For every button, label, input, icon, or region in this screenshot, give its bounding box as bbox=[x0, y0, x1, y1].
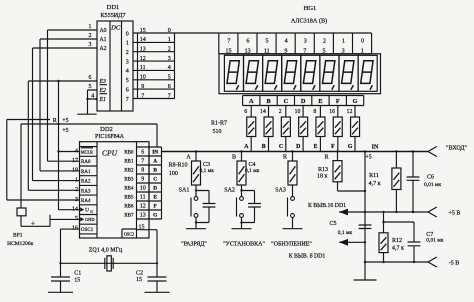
svg-text:12: 12 bbox=[140, 56, 146, 62]
svg-text:11: 11 bbox=[264, 48, 270, 54]
svg-text:18 к: 18 к bbox=[317, 174, 328, 180]
svg-text:+5: +5 bbox=[62, 128, 68, 134]
svg-text:R8-R10: R8-R10 bbox=[168, 163, 187, 169]
svg-text:9: 9 bbox=[141, 84, 144, 90]
svg-text:R: R bbox=[283, 155, 287, 161]
svg-text:"УСТАНОВКА": "УСТАНОВКА" bbox=[223, 242, 265, 248]
svg-text:12: 12 bbox=[347, 109, 353, 115]
svg-text:"РАЗРЯД": "РАЗРЯД" bbox=[181, 242, 207, 248]
svg-text:CPU: CPU bbox=[102, 148, 118, 157]
svg-text:5: 5 bbox=[89, 84, 92, 90]
svg-text:18: 18 bbox=[72, 168, 78, 174]
svg-text:E1: E1 bbox=[99, 97, 107, 103]
svg-text:11: 11 bbox=[140, 195, 146, 201]
svg-text:5: 5 bbox=[75, 216, 78, 222]
svg-text:1: 1 bbox=[75, 177, 78, 183]
svg-text:-5 В: -5 В bbox=[449, 261, 460, 267]
svg-text:RB2: RB2 bbox=[124, 169, 134, 174]
svg-text:C2: C2 bbox=[136, 271, 143, 277]
svg-text:10: 10 bbox=[140, 186, 146, 192]
svg-text:RB7: RB7 bbox=[124, 214, 134, 219]
svg-text:RA2: RA2 bbox=[81, 180, 91, 185]
svg-text:5: 5 bbox=[126, 78, 129, 84]
svg-text:A: A bbox=[186, 155, 191, 161]
svg-text:SA1: SA1 bbox=[179, 188, 190, 194]
svg-text:MCLR: MCLR bbox=[81, 149, 93, 154]
svg-text:К ВЫВ. 8 DD1: К ВЫВ. 8 DD1 bbox=[289, 254, 326, 260]
svg-text:DC: DC bbox=[110, 25, 121, 32]
svg-text:НСМ1206к: НСМ1206к bbox=[7, 241, 34, 247]
svg-text:HG1: HG1 bbox=[304, 5, 317, 12]
svg-text:4,7 к: 4,7 к bbox=[369, 181, 381, 187]
svg-text:1: 1 bbox=[89, 24, 92, 30]
svg-text:D: D bbox=[153, 186, 157, 192]
svg-text:RB1: RB1 bbox=[124, 160, 134, 165]
svg-text:510: 510 bbox=[213, 129, 222, 135]
svg-text:A2: A2 bbox=[100, 46, 107, 52]
svg-text:E: E bbox=[314, 144, 318, 150]
svg-text:B: B bbox=[262, 144, 266, 150]
svg-text:6: 6 bbox=[126, 87, 129, 93]
svg-text:6: 6 bbox=[141, 150, 144, 156]
svg-text:IN: IN bbox=[152, 150, 158, 156]
svg-text:A1: A1 bbox=[100, 37, 107, 43]
svg-text:К555ИД7: К555ИД7 bbox=[100, 12, 125, 19]
svg-text:3: 3 bbox=[126, 59, 129, 65]
svg-text:D: D bbox=[301, 98, 306, 105]
svg-text:0,1 мк: 0,1 мк bbox=[200, 168, 215, 174]
svg-text:2: 2 bbox=[126, 50, 129, 56]
svg-text:E: E bbox=[318, 98, 322, 105]
svg-text:10: 10 bbox=[295, 109, 301, 115]
svg-text:4: 4 bbox=[91, 93, 94, 99]
svg-text:F: F bbox=[331, 144, 335, 150]
svg-text:13: 13 bbox=[140, 213, 146, 219]
svg-text:2: 2 bbox=[75, 187, 78, 193]
svg-text:RA4: RA4 bbox=[81, 199, 91, 204]
svg-text:0,1 мк: 0,1 мк bbox=[338, 230, 353, 236]
svg-text:13: 13 bbox=[140, 47, 146, 53]
svg-text:A0: A0 bbox=[100, 28, 107, 34]
svg-text:RB5: RB5 bbox=[124, 196, 134, 201]
svg-text:3: 3 bbox=[304, 39, 307, 45]
svg-text:0,01 мк: 0,01 мк bbox=[426, 238, 443, 244]
svg-text:2: 2 bbox=[168, 47, 171, 53]
svg-text:RB4: RB4 bbox=[124, 187, 134, 192]
svg-text:15: 15 bbox=[136, 277, 142, 283]
svg-text:4: 4 bbox=[285, 39, 288, 45]
svg-text:4: 4 bbox=[126, 69, 129, 75]
svg-text:RA0: RA0 bbox=[81, 160, 91, 165]
svg-text:RA1: RA1 bbox=[81, 170, 91, 175]
svg-text:+5: +5 bbox=[365, 154, 371, 160]
svg-text:0: 0 bbox=[361, 39, 364, 45]
svg-text:6: 6 bbox=[168, 84, 171, 90]
svg-text:К ВЫВ.16 DD1: К ВЫВ.16 DD1 bbox=[308, 203, 346, 209]
svg-text:A: A bbox=[153, 159, 157, 165]
svg-text:0: 0 bbox=[126, 31, 129, 37]
svg-text:3: 3 bbox=[75, 197, 78, 203]
svg-text:R13: R13 bbox=[318, 167, 328, 173]
svg-text:DD1: DD1 bbox=[107, 4, 120, 11]
svg-text:9: 9 bbox=[284, 48, 287, 54]
svg-text:3: 3 bbox=[168, 56, 171, 62]
svg-text:4: 4 bbox=[168, 65, 171, 71]
svg-text:1: 1 bbox=[342, 39, 345, 45]
svg-text:АЛС318А (В): АЛС318А (В) bbox=[291, 18, 327, 25]
svg-text:6: 6 bbox=[246, 39, 249, 45]
svg-text:16: 16 bbox=[72, 226, 78, 232]
svg-text:14: 14 bbox=[260, 109, 266, 115]
svg-text:15: 15 bbox=[139, 224, 145, 230]
svg-text:IN: IN bbox=[372, 145, 379, 151]
svg-text:15: 15 bbox=[140, 28, 146, 34]
svg-text:10: 10 bbox=[140, 75, 146, 81]
svg-text:13: 13 bbox=[245, 48, 251, 54]
svg-text:G: G bbox=[348, 144, 353, 150]
svg-text:14: 14 bbox=[72, 206, 78, 212]
svg-text:1: 1 bbox=[126, 41, 129, 47]
svg-text:F: F bbox=[336, 98, 340, 105]
svg-text:E2: E2 bbox=[99, 88, 107, 94]
svg-text:7: 7 bbox=[141, 93, 144, 99]
svg-text:DD2: DD2 bbox=[100, 126, 113, 133]
svg-text:C5: C5 bbox=[329, 221, 336, 227]
svg-text:1: 1 bbox=[168, 37, 171, 43]
svg-text:SA2: SA2 bbox=[224, 188, 235, 194]
svg-text:U: U bbox=[85, 208, 89, 214]
svg-text:16: 16 bbox=[329, 109, 335, 115]
svg-text:11: 11 bbox=[140, 65, 146, 71]
svg-text:RB3: RB3 bbox=[124, 178, 134, 183]
svg-text:+5 В: +5 В bbox=[449, 210, 461, 216]
svg-text:SA3: SA3 bbox=[275, 188, 286, 194]
svg-text:8: 8 bbox=[141, 168, 144, 174]
svg-text:0,01 мк: 0,01 мк bbox=[424, 182, 441, 188]
svg-text:RB0: RB0 bbox=[124, 151, 134, 156]
svg-text:15: 15 bbox=[74, 277, 80, 283]
svg-text:C: C bbox=[284, 98, 289, 105]
svg-text:2: 2 bbox=[279, 109, 282, 115]
svg-text:6: 6 bbox=[244, 109, 247, 115]
svg-text:9: 9 bbox=[141, 177, 144, 183]
svg-text:1: 1 bbox=[361, 48, 364, 54]
svg-text:cc: cc bbox=[90, 210, 94, 214]
svg-text:7: 7 bbox=[126, 97, 129, 103]
svg-text:D: D bbox=[296, 144, 300, 150]
svg-text:4: 4 bbox=[75, 148, 78, 154]
svg-text:7: 7 bbox=[227, 39, 230, 45]
svg-text:5: 5 bbox=[266, 39, 269, 45]
svg-text:"ОБНУЛЕНИЕ": "ОБНУЛЕНИЕ" bbox=[271, 242, 312, 248]
svg-text:C1: C1 bbox=[74, 271, 81, 277]
svg-text:G: G bbox=[353, 98, 358, 105]
svg-text:R: R bbox=[324, 155, 328, 161]
svg-text:ZQ1 4,0 МГц: ZQ1 4,0 МГц bbox=[89, 248, 123, 254]
svg-text:4,7 к: 4,7 к bbox=[392, 246, 404, 252]
svg-text:2: 2 bbox=[323, 39, 326, 45]
svg-text:E3: E3 bbox=[99, 79, 107, 85]
svg-text:C: C bbox=[153, 177, 157, 183]
svg-text:0,1 мк: 0,1 мк bbox=[245, 168, 260, 174]
svg-text:5: 5 bbox=[323, 48, 326, 54]
svg-text:5: 5 bbox=[168, 75, 171, 81]
svg-text:12: 12 bbox=[140, 204, 146, 210]
svg-text:C6: C6 bbox=[427, 175, 434, 181]
svg-text:7: 7 bbox=[168, 93, 171, 99]
svg-text:2: 2 bbox=[89, 33, 92, 39]
svg-text:GND: GND bbox=[85, 217, 95, 222]
svg-text:3: 3 bbox=[342, 48, 345, 54]
svg-text:OSC1: OSC1 bbox=[81, 228, 94, 233]
svg-text:"ВХОД": "ВХОД" bbox=[446, 146, 467, 152]
svg-text:PIC16F84A: PIC16F84A bbox=[95, 134, 125, 140]
svg-text:R11: R11 bbox=[369, 173, 379, 179]
svg-text:100: 100 bbox=[169, 171, 178, 177]
svg-text:BF1: BF1 bbox=[13, 233, 23, 239]
svg-text:B: B bbox=[232, 155, 236, 161]
svg-text:14: 14 bbox=[140, 37, 146, 43]
svg-text:E: E bbox=[153, 195, 157, 201]
svg-text:R12: R12 bbox=[392, 238, 402, 244]
svg-text:OSC2: OSC2 bbox=[124, 232, 134, 237]
svg-text:+: + bbox=[31, 218, 35, 227]
svg-text:6: 6 bbox=[89, 75, 92, 81]
svg-text:RA3: RA3 bbox=[81, 189, 91, 194]
svg-text:A: A bbox=[249, 98, 254, 105]
svg-text:B: B bbox=[153, 168, 157, 174]
svg-text:3: 3 bbox=[89, 42, 92, 48]
svg-text:7: 7 bbox=[303, 48, 306, 54]
svg-text:R: R bbox=[53, 118, 57, 124]
svg-text:RB6: RB6 bbox=[124, 205, 134, 210]
svg-text:7: 7 bbox=[141, 159, 144, 165]
svg-text:15: 15 bbox=[226, 48, 232, 54]
svg-text:C: C bbox=[279, 144, 283, 150]
svg-text:R1-R7: R1-R7 bbox=[211, 120, 227, 126]
svg-text:+5: +5 bbox=[62, 118, 68, 124]
svg-text:0: 0 bbox=[168, 28, 171, 34]
svg-text:8: 8 bbox=[313, 109, 316, 115]
svg-text:17: 17 bbox=[72, 158, 78, 164]
